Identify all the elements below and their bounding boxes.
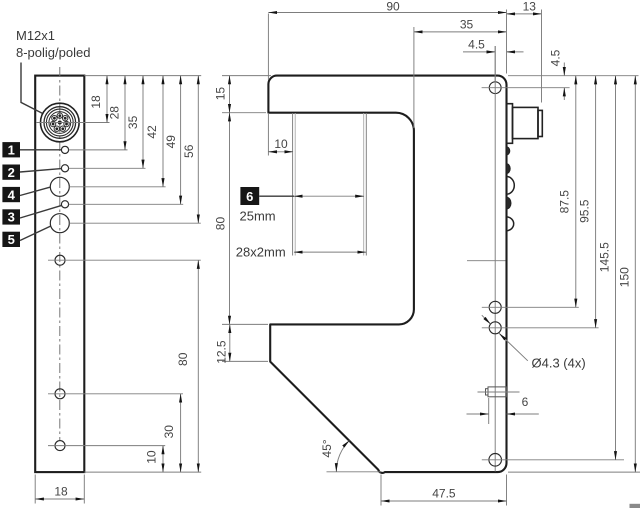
beam window line left light	[294, 113, 296, 256]
dimension 145.5	[598, 76, 616, 460]
beam axis tick	[467, 260, 506, 262]
leader hole1	[69, 149, 128, 151]
extension line connector tip	[541, 10, 543, 103]
dimension 30 vertical	[162, 394, 181, 472]
leader square 5	[20, 226, 51, 241]
bottom edge extension left view	[84, 471, 201, 473]
LED hole 1	[61, 146, 68, 153]
dimension 80 right view	[213, 113, 229, 325]
dimension 18 bottom	[35, 484, 84, 499]
leader hole4	[69, 186, 165, 188]
top edge extension line left view	[84, 75, 201, 77]
label 28x2mm	[236, 245, 286, 260]
dimension 28 vertical	[107, 76, 125, 150]
label M12x1 8-polig/poled	[16, 28, 90, 60]
mounting hole A right view	[489, 301, 501, 313]
beam window line right light	[363, 113, 365, 256]
svg-text:87.5: 87.5	[557, 190, 571, 214]
side bump small 2	[507, 164, 511, 174]
bottom edge extension right side	[508, 471, 640, 473]
svg-text:3: 3	[8, 210, 15, 225]
dimension 42 vertical	[145, 76, 163, 187]
mounting hole mid left view	[55, 389, 65, 399]
svg-text:47.5: 47.5	[432, 487, 456, 501]
svg-text:4.5: 4.5	[549, 49, 563, 66]
button hole 4	[50, 177, 69, 196]
callout square 2	[2, 165, 20, 180]
crosshair leader mounting hole mid	[48, 393, 183, 395]
mounting hole B right view	[489, 322, 501, 334]
callout square 3	[2, 209, 20, 224]
dimension 4.5 top	[463, 37, 524, 52]
dimension 56 vertical	[182, 76, 198, 224]
dimension 15	[213, 76, 229, 113]
svg-text:28x2mm: 28x2mm	[236, 245, 286, 260]
dimension 4.5 right vertical	[549, 49, 565, 100]
svg-text:80: 80	[213, 217, 227, 231]
leader hole A	[482, 306, 579, 308]
extension line 6 dim	[488, 398, 490, 424]
dimension 10 top right view	[268, 137, 293, 152]
leader hole3	[69, 203, 184, 205]
angle arc 45	[320, 439, 350, 472]
button hole 5	[50, 214, 69, 233]
mounting hole C right view	[489, 454, 502, 467]
side bump small 4	[507, 197, 512, 209]
extension line left arm corner	[267, 14, 269, 81]
svg-text:30: 30	[162, 425, 176, 439]
svg-text:10: 10	[144, 450, 158, 464]
svg-text:Ø4.3 (4x): Ø4.3 (4x)	[532, 356, 586, 371]
leader dia 4.3 lower segment	[499, 333, 528, 360]
crosshair top hole horizontal	[482, 87, 570, 89]
LED hole 2	[61, 165, 68, 172]
dimension 12.5	[215, 324, 230, 363]
extension 15 bottom / arm underside	[222, 112, 266, 114]
extension line body right edge top	[506, 10, 508, 74]
extension lines bottom corners left view	[35, 475, 84, 504]
svg-text:M12x1: M12x1	[16, 28, 55, 43]
angle reference line 45	[327, 471, 382, 473]
extension hole centerline top	[494, 46, 496, 81]
svg-text:49: 49	[164, 135, 178, 149]
leader hole C	[482, 459, 624, 461]
dimension 13 top	[507, 0, 542, 14]
svg-text:90: 90	[386, 0, 400, 14]
extension arm left edge below	[267, 113, 269, 156]
svg-text:45°: 45°	[320, 439, 334, 457]
crosshair leader mounting hole top	[48, 259, 201, 261]
svg-text:12.5: 12.5	[215, 340, 229, 364]
leader square 6	[259, 195, 294, 197]
svg-text:35: 35	[460, 18, 474, 32]
callout square 1	[2, 142, 20, 157]
dimension 80 vertical left view	[176, 260, 198, 472]
leader connector center	[37, 122, 110, 124]
left side view body outline	[35, 76, 84, 473]
side bump large 3	[507, 177, 515, 195]
top right mounting hole	[489, 82, 501, 94]
svg-text:35: 35	[126, 115, 140, 129]
dimension 18 vertical	[89, 76, 107, 123]
leader hole B	[482, 327, 599, 329]
leader square 3	[20, 205, 62, 218]
leader from label to connector	[21, 63, 42, 114]
extension 15 top	[222, 75, 271, 77]
leader hole2	[69, 167, 146, 169]
extension lines bottom corners right view	[381, 475, 507, 506]
side bump small 1	[507, 147, 510, 155]
label 25mm	[240, 208, 276, 223]
leader dia 4.3 upper segment	[482, 315, 491, 324]
svg-text:1: 1	[8, 143, 15, 158]
hole centerline vertical right view	[494, 46, 496, 472]
svg-text:18: 18	[54, 484, 68, 498]
extension 12.5 top	[222, 323, 268, 325]
svg-text:10: 10	[274, 137, 288, 151]
mounting hole bottom left view	[55, 441, 65, 451]
svg-text:80: 80	[176, 352, 190, 366]
extension 12.5 bottom	[222, 360, 268, 362]
svg-text:4: 4	[8, 187, 16, 202]
centerline left view	[59, 67, 61, 440]
svg-text:95.5: 95.5	[578, 199, 592, 223]
svg-text:13: 13	[523, 0, 537, 14]
dimension 90 top	[268, 0, 506, 14]
dimension 10 vertical left view	[144, 446, 163, 473]
svg-text:150: 150	[618, 267, 632, 287]
dimension 150	[618, 76, 636, 472]
leader hole5	[69, 222, 200, 224]
page corner gray mark	[630, 504, 640, 508]
svg-text:42: 42	[145, 125, 159, 139]
connector side view flange	[507, 104, 513, 144]
slot nut tab	[478, 387, 520, 397]
svg-text:18: 18	[89, 95, 103, 109]
beam window line left dark	[292, 113, 294, 256]
dimension 35 top right view	[414, 18, 507, 32]
leader square 4	[20, 187, 50, 195]
callout square 5	[2, 232, 20, 247]
connector M12 front view	[41, 103, 80, 142]
svg-text:145.5: 145.5	[598, 242, 612, 272]
leader square 1	[20, 149, 61, 151]
crosshair leader mounting hole bottom	[48, 445, 165, 447]
dimension 87.5	[557, 76, 576, 308]
svg-text:2: 2	[8, 165, 15, 180]
connector side view barrel	[513, 107, 539, 138]
svg-text:4.5: 4.5	[468, 37, 485, 51]
dimension 47.5 bottom	[381, 487, 507, 501]
leader square 2	[20, 169, 61, 172]
dimension 49 vertical	[164, 76, 181, 205]
svg-text:5: 5	[8, 232, 15, 247]
beam window line right dark	[365, 113, 367, 256]
svg-text:6: 6	[246, 189, 253, 204]
extension line inner slot edge top	[413, 27, 415, 128]
mounting hole top left view	[55, 255, 65, 265]
dimension 25mm arrows	[294, 195, 364, 197]
svg-text:8-polig/poled: 8-polig/poled	[16, 45, 90, 60]
svg-text:25mm: 25mm	[240, 208, 276, 223]
dimension 6	[467, 395, 539, 414]
callout square 4	[2, 187, 20, 202]
top edge extension right side	[508, 75, 639, 77]
dimension 28x2mm arrows	[294, 251, 366, 253]
svg-text:56: 56	[182, 144, 196, 158]
connector side view tip	[538, 110, 542, 136]
label dia 4.3 4x	[532, 356, 586, 371]
svg-text:28: 28	[107, 106, 121, 120]
LED hole 3	[61, 201, 68, 208]
dimension 95.5	[578, 76, 596, 328]
svg-text:6: 6	[522, 395, 529, 409]
right view fork body outline	[268, 76, 506, 473]
dimension 35 vertical left view	[126, 76, 143, 169]
callout square 6	[240, 187, 259, 205]
svg-text:15: 15	[213, 87, 227, 101]
side bump large 5	[507, 217, 514, 231]
